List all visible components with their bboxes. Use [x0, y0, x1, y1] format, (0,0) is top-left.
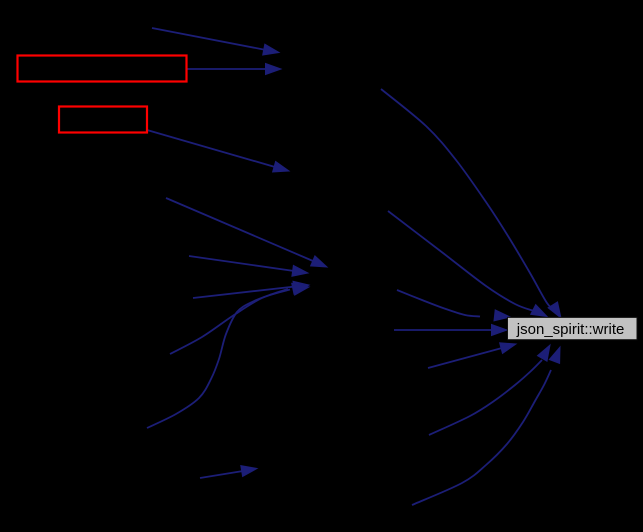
svg-text:json_spirit::write: json_spirit::write: [516, 321, 625, 338]
node: red box 2 (caller, highlighted): [59, 107, 147, 133]
edge node12->node9 (s-curve): [147, 284, 309, 428]
edge node3->node1 (from red box 1): [187, 64, 281, 75]
edge node13->node14 (short bottom arrow): [200, 466, 257, 478]
edge node1->json_spirit::write (big curve): [381, 89, 561, 318]
edge node20->json_spirit::write (bottom curve): [412, 347, 560, 505]
edge node11->node9 (gentle curve): [170, 283, 308, 354]
edge node18->json_spirit::write: [428, 343, 516, 368]
edge node15->json_spirit::write: [388, 211, 547, 317]
edge node8->node9: [189, 256, 308, 276]
edge node10->node9: [193, 281, 309, 298]
edge node2->node1 (top diagonal): [152, 28, 279, 55]
node: red box 1 (caller, highlighted): [18, 56, 187, 82]
edge node16->json_spirit::write: [397, 290, 510, 321]
edge node19->json_spirit::write (lower curve): [429, 345, 550, 435]
edge node17->json_spirit::write (horizontal): [394, 325, 507, 336]
node: json_spirit::write (current function, grey): [508, 317, 638, 339]
edge node6->node7: [166, 198, 327, 267]
edge node4->node5 (from red box 2): [147, 130, 289, 172]
